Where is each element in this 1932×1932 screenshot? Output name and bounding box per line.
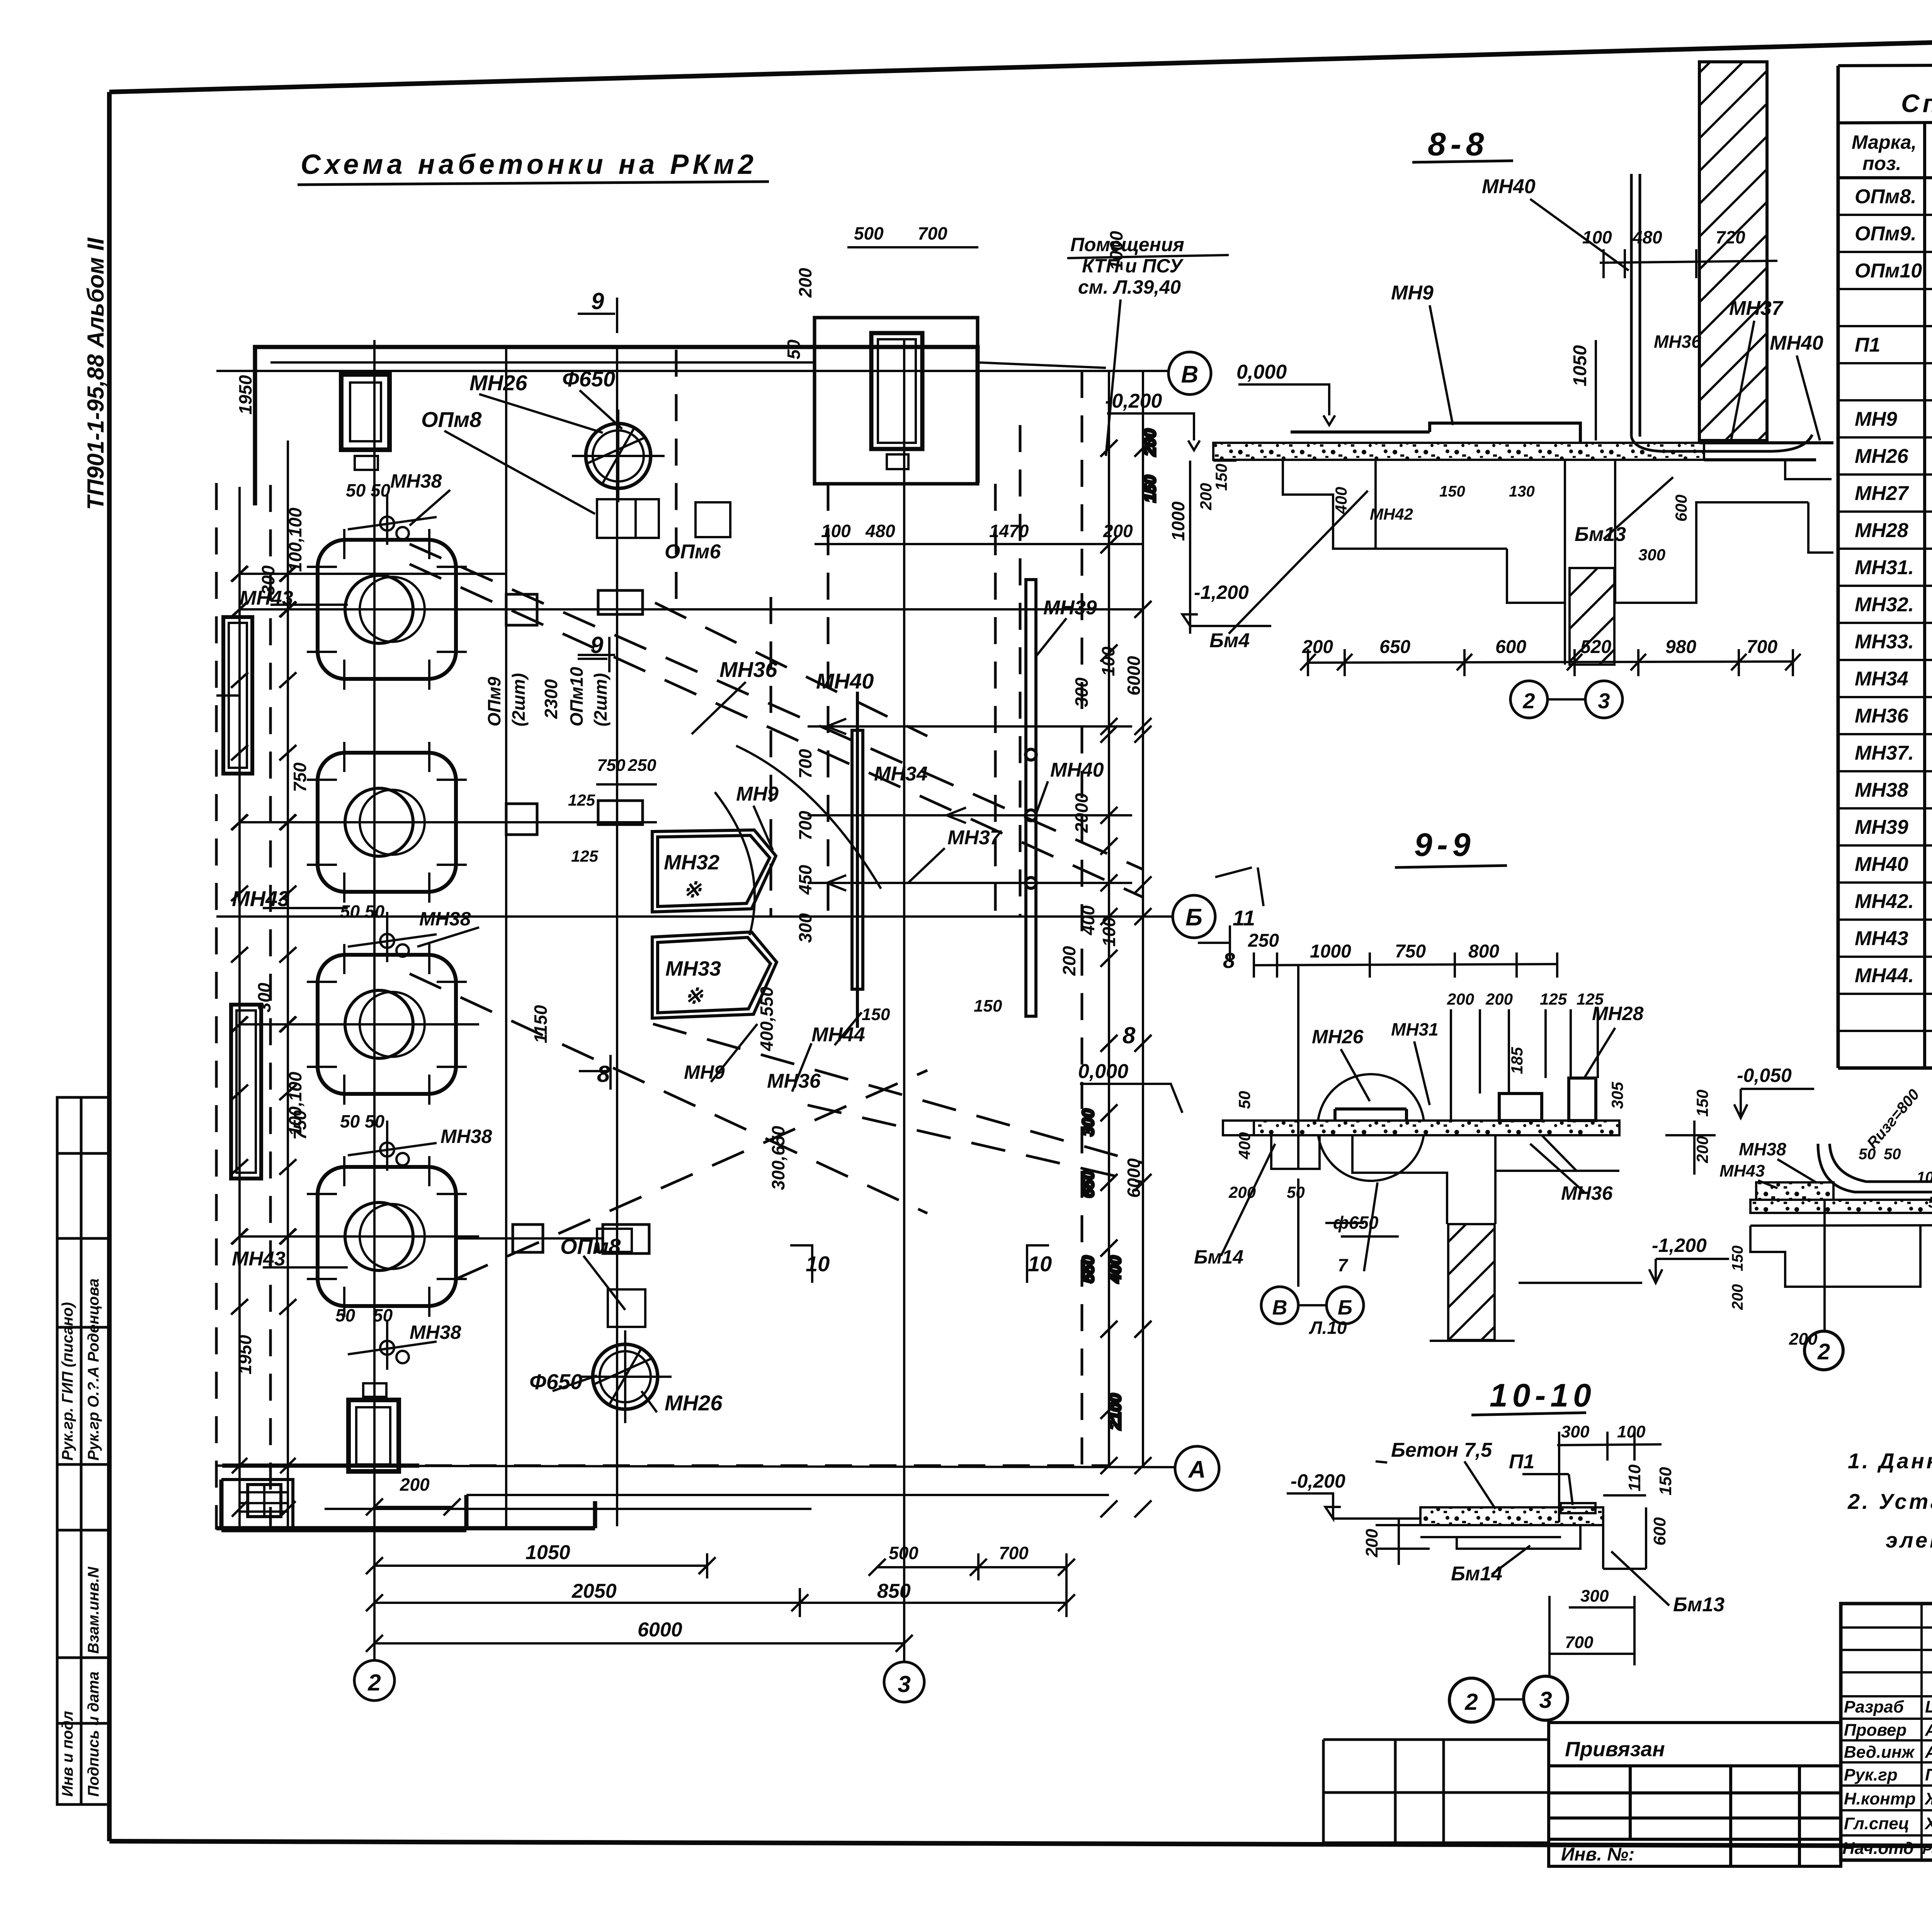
svg-text:А: А	[1188, 1456, 1206, 1483]
svg-text:185: 185	[1508, 1047, 1526, 1074]
svg-text:200: 200	[400, 1475, 430, 1495]
dim row 9-9 top	[1254, 952, 1557, 978]
svg-text:200: 200	[1362, 1529, 1381, 1558]
svg-text:720: 720	[1716, 227, 1745, 247]
svg-text:МН43: МН43	[1855, 927, 1908, 950]
svg-text:МН36: МН36	[1654, 332, 1701, 352]
svg-text:Бм14: Бм14	[1194, 1246, 1243, 1268]
svg-text:150: 150	[1693, 1090, 1711, 1117]
svg-text:980: 980	[1665, 637, 1696, 657]
svg-text:150: 150	[1439, 483, 1465, 500]
svg-text:МН34: МН34	[874, 763, 928, 785]
under profile 11-11	[1750, 1226, 1932, 1321]
svg-text:Повалзева: Повалзева	[1925, 1765, 1932, 1784]
elevation 0.000 top	[1105, 361, 1287, 412]
svg-text:480: 480	[865, 521, 895, 541]
svg-text:1000: 1000	[1168, 501, 1188, 541]
svg-text:МН37.: МН37.	[1855, 742, 1914, 764]
svg-text:(2шт): (2шт)	[509, 673, 529, 726]
svg-text:Андреева: Андреева	[1925, 1721, 1932, 1740]
svg-text:520: 520	[1580, 637, 1611, 657]
svg-text:200: 200	[1789, 1330, 1818, 1349]
svg-text:750: 750	[1395, 941, 1426, 962]
hatched pier 9-9	[1448, 1224, 1495, 1340]
svg-text:В: В	[1272, 1296, 1287, 1319]
svg-text:МН32: МН32	[664, 851, 719, 874]
svg-text:МН40: МН40	[1855, 853, 1908, 876]
SECTION 9-9	[1194, 827, 1814, 1341]
svg-text:200: 200	[795, 268, 815, 298]
svg-text:1050: 1050	[526, 1541, 570, 1564]
svg-text:150: 150	[1729, 1245, 1746, 1271]
MN38 anchor cluster	[348, 1121, 437, 1171]
svg-text:П1: П1	[1855, 334, 1880, 356]
svg-text:50: 50	[1928, 1194, 1932, 1211]
SECTION 10-10	[1287, 1377, 1725, 1722]
svg-text:Л.10: Л.10	[1309, 1318, 1347, 1338]
svg-text:Нач.отд: Нач.отд	[1842, 1839, 1914, 1858]
svg-text:100: 100	[1617, 1422, 1646, 1441]
svg-text:МН40: МН40	[1050, 759, 1104, 781]
svg-text:8-8: 8-8	[1428, 126, 1488, 162]
svg-text:-0,200: -0,200	[1105, 390, 1162, 412]
spec table	[1838, 66, 1932, 1068]
svg-text:2000: 2000	[1071, 793, 1092, 833]
svg-text:1950: 1950	[235, 375, 255, 415]
svg-text:200: 200	[1693, 1136, 1711, 1163]
svg-text:200: 200	[1103, 521, 1133, 541]
svg-text:0,000: 0,000	[1078, 1060, 1128, 1083]
svg-text:9-9: 9-9	[1414, 827, 1475, 863]
SECTION 11-11	[1719, 1086, 1932, 1370]
svg-text:400: 400	[1235, 1132, 1253, 1160]
svg-text:МН37: МН37	[947, 827, 1002, 849]
plan bottom wall	[216, 1501, 595, 1528]
marks 2-3 under 10-10	[1449, 1596, 1568, 1722]
shield MN32	[652, 830, 776, 912]
svg-text:-0,200: -0,200	[1291, 1470, 1345, 1492]
svg-text:50: 50	[1235, 1091, 1253, 1109]
svg-text:МН44.: МН44.	[1855, 964, 1914, 987]
main drawing title	[298, 149, 769, 185]
svg-text:150: 150	[1212, 464, 1230, 491]
svg-text:1. Данный лист рассматривать: 1. Данный лист рассматривать совместно с…	[1848, 1449, 1932, 1473]
svg-text:480: 480	[1632, 227, 1662, 247]
svg-text:Жило: Жило	[1924, 1789, 1932, 1808]
svg-text:МН36: МН36	[719, 657, 777, 682]
svg-text:6000: 6000	[638, 1619, 682, 1641]
svg-text:Гл.спец: Гл.спец	[1844, 1814, 1909, 1833]
dim tick crosses	[231, 440, 1151, 1474]
svg-text:550: 550	[1079, 1256, 1097, 1283]
pump frame MN43 #2	[294, 742, 479, 903]
svg-text:МН26: МН26	[469, 371, 527, 395]
svg-text:50: 50	[1287, 1183, 1305, 1201]
svg-text:150: 150	[1656, 1467, 1675, 1495]
svg-text:850: 850	[877, 1580, 911, 1602]
svg-text:ОПм9.: ОПм9.	[1855, 223, 1917, 245]
svg-text:3: 3	[898, 1671, 910, 1697]
dim row top	[815, 247, 1143, 544]
svg-text:МН31: МН31	[1391, 1019, 1439, 1039]
svg-text:ОПм8.: ОПм8.	[1855, 185, 1917, 208]
elevations 9-9	[1652, 1065, 1792, 1256]
svg-text:Шабалина: Шабалина	[1925, 1697, 1932, 1716]
svg-text:МН31.: МН31.	[1855, 556, 1914, 579]
svg-text:200: 200	[1302, 637, 1333, 657]
svg-text:200: 200	[1729, 1284, 1746, 1310]
svg-text:ОПм10: ОПм10	[1855, 260, 1922, 282]
svg-text:Марка,: Марка,	[1852, 131, 1917, 153]
svg-text:50 50: 50 50	[340, 901, 385, 922]
svg-text:450: 450	[795, 865, 815, 895]
slab 10-10	[1420, 1507, 1603, 1525]
left ledge 9-9	[1223, 964, 1320, 1169]
grid circles V B A	[1168, 352, 1219, 1490]
wall slots left	[223, 617, 261, 1179]
dim tick crosses	[232, 566, 296, 1517]
svg-text:300: 300	[1079, 1109, 1097, 1136]
svg-text:50: 50	[784, 339, 804, 359]
svg-text:1150: 1150	[531, 1005, 551, 1043]
title block	[1841, 1604, 1932, 1861]
MN34 plate	[852, 692, 863, 1028]
svg-text:Бм14: Бм14	[1451, 1563, 1502, 1585]
svg-text:300: 300	[1580, 1587, 1609, 1605]
dims 10-10	[1362, 1422, 1675, 1652]
svg-text:МН43: МН43	[1719, 1162, 1765, 1180]
privyazan table	[1323, 1723, 1841, 1866]
svg-text:МН39: МН39	[1043, 597, 1097, 619]
svg-text:650: 650	[1379, 637, 1410, 657]
svg-text:МН34: МН34	[1855, 668, 1908, 690]
pump frame MN43 #4	[294, 1156, 479, 1317]
svg-text:200: 200	[1059, 946, 1079, 976]
svg-text:МН42.: МН42.	[1855, 890, 1914, 913]
svg-text:100: 100	[821, 521, 851, 541]
svg-text:Подпись и дата: Подпись и дата	[85, 1672, 102, 1797]
labels 11-11	[1719, 1128, 1932, 1349]
horizontal arrow rows	[808, 719, 1132, 891]
svg-text:Привязан: Привязан	[1565, 1738, 1665, 1761]
svg-text:8: 8	[1122, 1022, 1136, 1048]
svg-text:Андреева: Андреева	[1925, 1743, 1932, 1762]
svg-text:МН9: МН9	[1855, 408, 1897, 430]
svg-text:см. Л.39,40: см. Л.39,40	[1078, 276, 1181, 298]
notes	[1847, 1449, 1932, 1552]
svg-text:200: 200	[1485, 990, 1513, 1008]
svg-text:300,650: 300,650	[768, 1126, 788, 1190]
svg-text:400,550: 400,550	[757, 986, 777, 1051]
base plate bottom	[349, 1383, 399, 1471]
svg-text:600: 600	[1672, 495, 1690, 522]
svg-text:150: 150	[862, 1005, 890, 1024]
MN40 tube	[1026, 580, 1036, 1016]
svg-text:100,100: 100,100	[285, 507, 305, 572]
svg-text:Схема набетонки на РКм2: Схема набетонки на РКм2	[301, 149, 757, 180]
svg-text:150: 150	[1141, 475, 1159, 502]
svg-text:Разраб: Разраб	[1844, 1697, 1905, 1716]
MN38 anchor cluster 4	[348, 1320, 437, 1370]
svg-text:Бетон 7,5: Бетон 7,5	[1391, 1439, 1492, 1461]
left pedestal MN43	[1756, 1182, 1833, 1200]
OPm9/OPm10 pads	[506, 590, 649, 1253]
svg-text:Инв. №:: Инв. №:	[1561, 1844, 1634, 1865]
section flags 10 10	[579, 1055, 1049, 1283]
svg-text:300: 300	[254, 983, 274, 1012]
svg-text:(2шт): (2шт)	[590, 673, 611, 726]
svg-text:Н.контр: Н.контр	[1844, 1789, 1916, 1808]
svg-text:МН37: МН37	[1729, 297, 1784, 320]
svg-text:В: В	[1181, 361, 1199, 388]
bottom dims	[374, 1495, 1109, 1662]
svg-text:125: 125	[1577, 990, 1604, 1008]
svg-text:300: 300	[1071, 677, 1092, 707]
marks 2-3 under 11-11	[1804, 1329, 1932, 1370]
svg-text:МН38: МН38	[1855, 779, 1908, 801]
svg-text:600: 600	[1495, 637, 1526, 657]
svg-text:125: 125	[571, 847, 599, 865]
svg-text:6000: 6000	[1124, 1158, 1144, 1198]
svg-text:2100: 2100	[1106, 1394, 1124, 1430]
svg-text:ОПм9: ОПм9	[484, 677, 504, 726]
svg-text:100: 100	[1582, 227, 1612, 247]
shield MN33	[652, 932, 777, 1018]
slab 9-9	[1254, 1121, 1619, 1135]
spec table rows	[1838, 215, 1932, 1068]
plan outer wall top	[255, 347, 978, 505]
page number box 23	[1838, 24, 1932, 66]
svg-text:700: 700	[795, 749, 815, 779]
svg-text:300: 300	[1561, 1422, 1590, 1441]
under structure 9-9	[1352, 1135, 1619, 1224]
svg-text:750: 750	[290, 762, 310, 792]
SECTION 8-8	[1168, 62, 1833, 718]
svg-text:130: 130	[1509, 483, 1535, 500]
labels 10-10	[1291, 1439, 1725, 1616]
section flag 9 top	[216, 298, 1159, 1528]
dashed boundary	[216, 350, 1109, 1528]
svg-text:1050: 1050	[1570, 345, 1590, 386]
svg-text:2. Установку МН36÷МН40 произв: 2. Установку МН36÷МН40 производить под н…	[1847, 1489, 1932, 1514]
svg-text:Ф650: Ф650	[562, 367, 615, 391]
svg-text:-1,200: -1,200	[1652, 1235, 1707, 1256]
svg-text:Б: Б	[1185, 904, 1202, 931]
svg-text:50 50: 50 50	[340, 1111, 385, 1131]
svg-text:250: 250	[628, 756, 656, 775]
svg-text:Провер: Провер	[1844, 1721, 1906, 1740]
svg-text:Взам.инв.N: Взам.инв.N	[85, 1566, 102, 1654]
svg-text:1950: 1950	[235, 1335, 255, 1374]
svg-text:МН26: МН26	[1312, 1026, 1364, 1048]
svg-text:МН38: МН38	[419, 908, 471, 930]
svg-text:700: 700	[795, 811, 815, 840]
left stamp boxes	[57, 1097, 109, 1804]
svg-text:МН36: МН36	[1561, 1182, 1613, 1204]
svg-text:1000: 1000	[1310, 941, 1351, 962]
svg-text:МН9: МН9	[1391, 282, 1434, 304]
svg-text:электромонтажников: электромонтажников	[1886, 1528, 1932, 1552]
svg-text:150: 150	[974, 997, 1002, 1015]
svg-text:ТП901-1-95,88 Альбом II: ТП901-1-95,88 Альбом II	[83, 237, 109, 510]
pipe MN40 8-8	[1631, 174, 1812, 451]
OPm8 plates	[597, 499, 730, 1327]
svg-text:ОПм8: ОПм8	[560, 1234, 621, 1259]
svg-text:125: 125	[568, 791, 595, 809]
marks 2-3 under 8-8	[1510, 681, 1622, 718]
svg-text:8: 8	[597, 1061, 610, 1087]
svg-text:11: 11	[1233, 906, 1255, 930]
svg-text:10-10: 10-10	[1490, 1377, 1596, 1413]
svg-text:1470: 1470	[989, 521, 1029, 541]
svg-text:МН9: МН9	[736, 783, 779, 805]
pipe sleeve f650 MN26	[572, 410, 665, 502]
plan bottom wall	[221, 1466, 466, 1530]
svg-text:МН40: МН40	[1482, 175, 1536, 198]
svg-text:ОПм10: ОПм10	[566, 667, 587, 726]
svg-text:2300: 2300	[541, 679, 561, 719]
pipe sleeve f650 MN26	[579, 1330, 672, 1423]
left stamp rotated labels	[59, 1279, 102, 1797]
svg-text:400: 400	[1332, 487, 1350, 514]
svg-text:750: 750	[597, 756, 626, 775]
svg-text:700: 700	[999, 1543, 1029, 1563]
svg-text:700: 700	[1747, 637, 1777, 657]
svg-text:200: 200	[1141, 429, 1159, 456]
svg-text:400: 400	[1106, 1256, 1124, 1283]
MN38 anchor cluster	[348, 495, 437, 545]
detail circle 9-9	[1318, 1074, 1424, 1181]
pipe runs dashed	[410, 544, 1143, 1279]
section cut 11 mark	[1215, 867, 1264, 906]
mark 8 left	[1198, 925, 1230, 962]
svg-text:МН36: МН36	[1855, 705, 1909, 727]
svg-text:Ханин: Ханин	[1924, 1814, 1932, 1833]
right side dim ticks	[231, 440, 1151, 1517]
small dims 9-9	[1235, 990, 1711, 1163]
svg-text:100: 100	[1917, 1169, 1932, 1186]
marks V-B under 9-9	[1261, 1179, 1364, 1324]
labels 9-9	[1194, 1003, 1644, 1338]
horizontal thin lines	[216, 574, 1144, 1238]
svg-text:2: 2	[1464, 1689, 1478, 1715]
svg-text:3: 3	[1598, 689, 1610, 713]
svg-text:800: 800	[1468, 941, 1499, 962]
svg-text:Раззабумлял: Раззабумлял	[1922, 1841, 1932, 1857]
svg-text:МН27: МН27	[1855, 482, 1909, 505]
svg-text:700: 700	[1565, 1633, 1594, 1652]
slab 11-11	[1750, 1200, 1932, 1213]
vertical refs 11-11	[1825, 1117, 1932, 1331]
svg-text:250: 250	[1248, 930, 1279, 951]
svg-text:110: 110	[1625, 1464, 1644, 1492]
svg-text:Рук.гр О.?.А Роденцова: Рук.гр О.?.А Роденцова	[85, 1279, 102, 1461]
svg-text:125: 125	[1540, 990, 1567, 1008]
svg-text:МН38: МН38	[440, 1126, 492, 1147]
svg-text:Б: Б	[1338, 1296, 1352, 1319]
svg-text:Инв и подл: Инв и подл	[59, 1711, 76, 1797]
svg-text:МН33.: МН33.	[1855, 631, 1914, 653]
svg-text:500: 500	[854, 223, 884, 243]
bottom-left niche	[221, 1480, 293, 1527]
under-slab structure 8-8	[1213, 460, 1833, 665]
svg-text:300: 300	[795, 913, 815, 943]
grid row lines	[216, 340, 1175, 1662]
svg-text:2: 2	[367, 1670, 381, 1696]
svg-text:поз.: поз.	[1862, 153, 1901, 174]
svg-text:МН39: МН39	[1855, 816, 1908, 838]
svg-text:6000: 6000	[1124, 656, 1144, 696]
header texts	[1852, 131, 1932, 176]
column marks 2 3	[354, 1660, 924, 1702]
svg-text:2: 2	[1817, 1339, 1830, 1364]
svg-text:МН38: МН38	[1739, 1139, 1786, 1159]
svg-text:100,100: 100,100	[285, 1071, 305, 1136]
svg-text:700: 700	[918, 223, 947, 243]
svg-text:400: 400	[1078, 905, 1098, 935]
thin verticals dim chains	[240, 347, 1143, 1530]
svg-text:П1: П1	[1509, 1451, 1534, 1473]
svg-text:200: 200	[1447, 990, 1474, 1008]
KTP rooms top right	[815, 318, 978, 484]
svg-text:10: 10	[1028, 1252, 1052, 1276]
labels 8-8	[1209, 175, 1823, 652]
svg-text:2050: 2050	[571, 1580, 617, 1602]
svg-text:МН38: МН38	[390, 470, 442, 492]
elevations 8-8	[1194, 582, 1249, 603]
PLAN VIEW	[216, 223, 1335, 1702]
small left grid	[1323, 1740, 1549, 1843]
svg-text:Рук.гр. ГИП (писано): Рук.гр. ГИП (писано)	[59, 1302, 76, 1461]
svg-text:600: 600	[1650, 1517, 1669, 1546]
svg-text:650: 650	[1079, 1171, 1097, 1198]
hatched footing 8-8	[1570, 568, 1614, 665]
svg-text:100: 100	[1099, 917, 1119, 947]
svg-text:-0,050: -0,050	[1737, 1065, 1792, 1086]
svg-text:МН43: МН43	[240, 587, 293, 609]
svg-text:9: 9	[591, 288, 604, 314]
svg-text:МН40: МН40	[816, 669, 874, 693]
svg-text:МН32.: МН32.	[1855, 594, 1914, 616]
bottom dim chain 8-8	[1190, 461, 1801, 676]
svg-text:МН40: МН40	[1770, 332, 1823, 354]
svg-text:ОПм8: ОПм8	[421, 407, 482, 432]
hatched wall 8-8	[1699, 62, 1767, 440]
svg-text:2: 2	[1522, 689, 1535, 713]
svg-text:50: 50	[373, 1305, 393, 1325]
section flags	[578, 298, 1049, 1283]
svg-text:50: 50	[1884, 1146, 1901, 1163]
pipe MN38 bend left	[1818, 1144, 1932, 1192]
cabinet top-left	[341, 374, 389, 470]
svg-text:Бм13: Бм13	[1673, 1594, 1725, 1616]
svg-text:※: ※	[685, 984, 704, 1008]
svg-text:※: ※	[683, 878, 702, 902]
svg-text:0,000: 0,000	[1236, 361, 1287, 383]
svg-text:МН26: МН26	[1855, 445, 1909, 468]
rooms annotation	[1070, 234, 1184, 298]
svg-text:3: 3	[1539, 1687, 1552, 1713]
MN38 anchor cluster	[348, 912, 437, 962]
svg-text:-1,200: -1,200	[1194, 582, 1249, 603]
svg-text:300: 300	[1638, 546, 1665, 564]
svg-text:500: 500	[889, 1543, 918, 1563]
svg-text:Вед.инж: Вед.инж	[1844, 1743, 1915, 1762]
svg-text:Спецификация к набетонке на: Спецификация к набетонке на РКм2	[1901, 89, 1932, 117]
pump frame MN43 #3	[294, 944, 479, 1105]
slab 8-8	[1213, 443, 1704, 460]
svg-text:50 50: 50 50	[346, 480, 391, 500]
